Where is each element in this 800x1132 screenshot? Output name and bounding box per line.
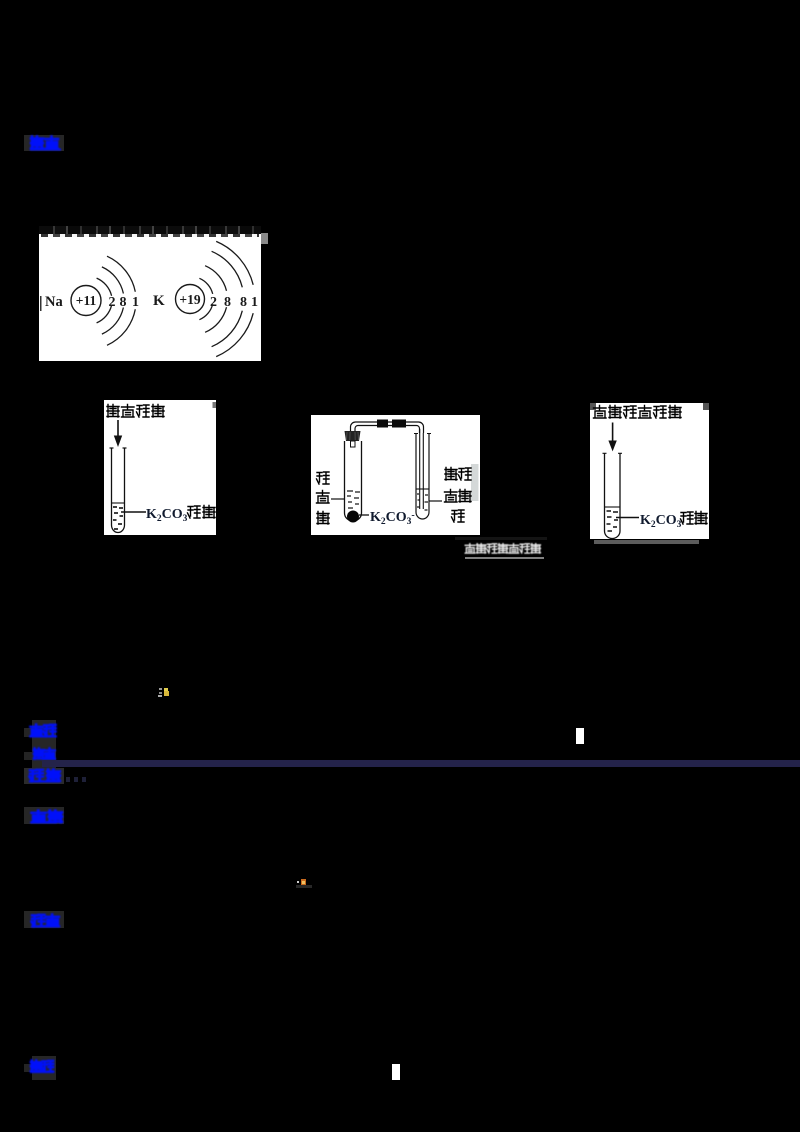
svg-text:+19: +19 (179, 292, 200, 307)
svg-text:K2CO3-: K2CO3- (370, 510, 415, 527)
svg-text:K2CO3: K2CO3 (146, 507, 188, 524)
svg-text:2: 2 (109, 295, 116, 310)
svg-text:8: 8 (120, 295, 127, 310)
svg-text:1: 1 (132, 295, 139, 310)
svg-text:8: 8 (240, 295, 247, 310)
svg-text:1: 1 (251, 295, 258, 310)
svg-text:+11: +11 (76, 293, 97, 308)
svg-text:2: 2 (210, 295, 217, 310)
svg-text:Na: Na (45, 294, 63, 310)
svg-text:K: K (153, 293, 165, 309)
svg-text:8: 8 (224, 295, 231, 310)
svg-text:K2CO3: K2CO3 (640, 513, 682, 530)
